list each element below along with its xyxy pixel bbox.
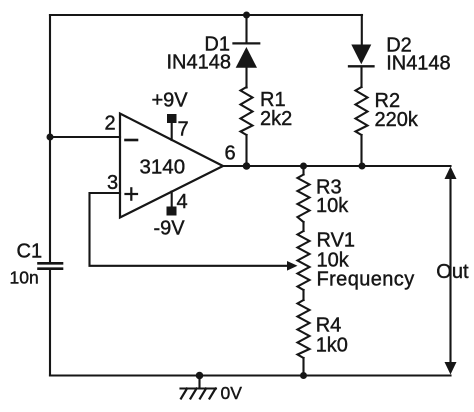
svg-text:10n: 10n [10,268,39,288]
svg-text:Out: Out [436,261,469,283]
svg-text:4: 4 [177,191,188,213]
svg-text:C1: C1 [17,241,43,263]
svg-text:3: 3 [107,172,118,194]
svg-text:-9V: -9V [154,218,186,240]
svg-text:+9V: +9V [152,89,189,111]
svg-text:0V: 0V [221,383,243,403]
svg-text:10k: 10k [316,195,349,217]
svg-text:3140: 3140 [140,156,186,179]
svg-text:6: 6 [225,143,236,165]
svg-text:1k0: 1k0 [316,335,348,357]
svg-text:2: 2 [105,113,116,135]
svg-text:IN4148: IN4148 [386,53,451,75]
svg-text:RV1: RV1 [317,230,356,252]
svg-text:IN4148: IN4148 [167,52,232,74]
svg-text:Frequency: Frequency [317,269,415,291]
svg-text:R4: R4 [316,315,342,337]
svg-text:220k: 220k [375,109,419,131]
svg-text:7: 7 [178,119,189,141]
svg-text:2k2: 2k2 [260,108,292,130]
